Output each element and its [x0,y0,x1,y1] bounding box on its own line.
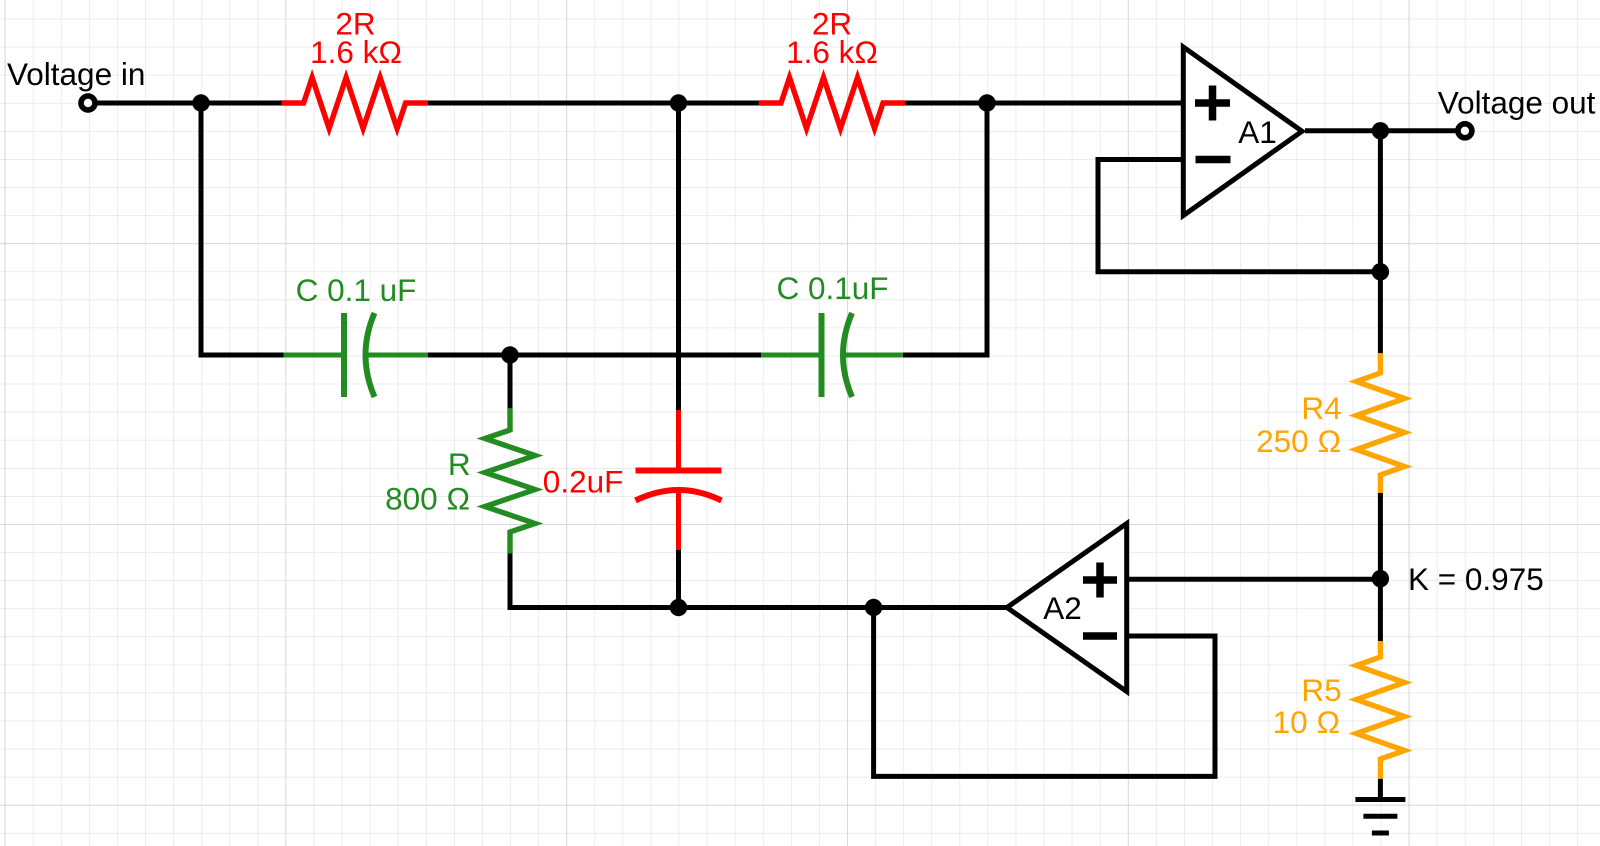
wire R5 to ground [1378,779,1383,800]
wire left branch down [201,103,284,355]
svg-text:C 0.1uF: C 0.1uF [776,270,888,306]
capacitor 0.2uF [636,410,722,550]
node right junction [978,94,995,111]
svg-text:K = 0.975: K = 0.975 [1408,561,1544,597]
svg-text:R5: R5 [1301,672,1341,708]
op-amp A2 [1007,524,1127,692]
node output junction [1372,122,1389,139]
label A2 plus [1083,563,1117,598]
svg-text:R: R [448,446,471,482]
wire between capacitors [428,353,761,358]
svg-text:Voltage out: Voltage out [1438,85,1596,121]
node bottom center junction [670,599,687,616]
ground [1355,800,1405,834]
svg-text:0.2uF: 0.2uF [543,464,624,500]
wire R4 to K node [1378,493,1383,641]
node top center junction [670,94,687,111]
wire A2 feedback [874,608,1215,777]
capacitor C 0.1uF right [761,313,903,397]
svg-text:C 0.1 uF: C 0.1 uF [296,272,417,308]
svg-text:1.6 kΩ: 1.6 kΩ [786,34,878,70]
wire top junction to cap 0.2uF [676,103,681,410]
label A1 plus [1195,86,1230,121]
svg-text:800 Ω: 800 Ω [385,481,470,517]
node A1 feedback junction [1372,263,1389,280]
op-amp A1 [1183,47,1302,216]
wire between resistors [428,101,759,106]
label A2 minus [1083,632,1117,640]
svg-text:Voltage in: Voltage in [7,56,145,92]
wire R bottom to A2 [510,554,1008,608]
wire cap junction to R [508,355,513,408]
svg-text:A2: A2 [1043,590,1082,626]
resistor R 800 [485,408,535,553]
capacitor C 0.1 uF left [284,313,429,397]
node feedback junction [865,599,882,616]
node K junction [1372,570,1389,587]
label A1 minus [1196,156,1231,164]
terminal Voltage in [81,96,95,110]
wire R2 to op-amp [905,101,1182,106]
svg-text:10 Ω: 10 Ω [1273,704,1340,740]
resistor 2R left [282,78,428,129]
wire A1 output [1305,128,1458,133]
wire K to A2 plus input [1127,577,1381,582]
wire A1 feedback [1098,160,1380,272]
svg-text:A1: A1 [1238,114,1277,150]
node input junction [192,94,209,111]
terminal Voltage out [1458,124,1472,138]
resistor 2R right [759,78,905,129]
svg-text:250 Ω: 250 Ω [1256,423,1341,459]
svg-text:R4: R4 [1301,390,1341,426]
wire cap 0.2uF bottom [676,550,681,608]
resistor R5 [1356,641,1404,779]
wire right branch down [903,103,987,355]
wire input to R1 [98,101,282,106]
resistor R4 [1356,353,1404,493]
wire output down to R4 [1378,131,1383,353]
svg-text:1.6 kΩ: 1.6 kΩ [310,34,402,70]
node cap row junction [501,346,518,363]
